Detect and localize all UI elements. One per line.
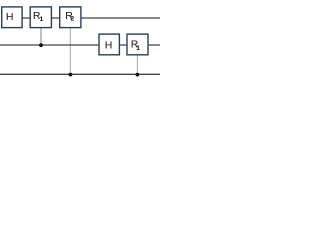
wire qubit 2 (0, 44, 160, 46)
svg-text:2: 2 (70, 16, 74, 23)
control line from R1 (q1) to dot on q2 (40, 28, 42, 45)
control dot on qubit 3 (for R1 q2) (136, 73, 140, 77)
control dot on qubit 3 (for R2 q1) (69, 73, 73, 77)
gate H (qubit 1) box (2, 7, 22, 28)
control dot on qubit 2 (for R1 q1) (39, 43, 43, 47)
svg-text:H: H (6, 11, 14, 23)
gate H (qubit 2) box (99, 34, 119, 55)
gate R2 (qubit 1) box (60, 7, 81, 28)
svg-text:1: 1 (136, 45, 140, 52)
svg-text:H: H (105, 39, 113, 51)
wire qubit 1 (2, 17, 161, 19)
gate R1 (qubit 1) box (30, 7, 51, 28)
gate R1 (qubit 2) box (127, 34, 148, 55)
svg-text:1: 1 (40, 16, 44, 23)
control line from R2 (q1) to dot on q3 (69, 28, 71, 75)
control line from R1 (q2) to dot on q3 (136, 55, 138, 75)
wire qubit 3 (0, 73, 160, 75)
